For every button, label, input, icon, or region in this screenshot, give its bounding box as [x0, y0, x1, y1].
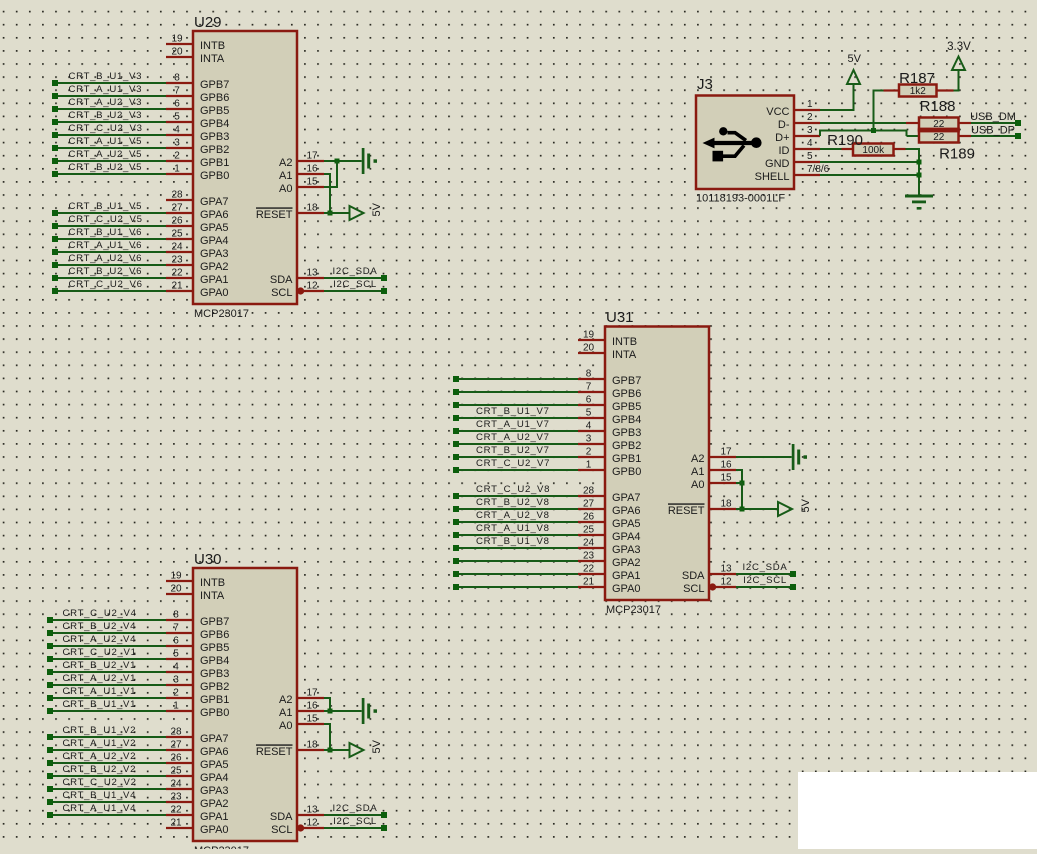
svg-text:20: 20: [170, 584, 182, 595]
wire net GPA0 to U31 pin 21: [453, 584, 578, 590]
svg-text:24: 24: [170, 779, 182, 790]
pin 15 (A0) of U29: [279, 177, 324, 195]
pin 27 (GPA6) of U29: [166, 203, 229, 221]
svg-text:10118193-0001LF: 10118193-0001LF: [696, 193, 785, 205]
svg-text:GPB0: GPB0: [612, 466, 641, 478]
junction on U30 A1 wire: [328, 709, 333, 714]
svg-text:GPA2: GPA2: [200, 798, 229, 810]
wire net CRT_A_U2_V5 to U29 pin 2: [52, 149, 166, 164]
pin 24 (GPA3) of U31: [578, 538, 641, 556]
wire U29 A1 down to A0 row: [324, 173, 330, 187]
svg-text:CRT_A_U1_V3: CRT_A_U1_V3: [69, 84, 143, 95]
svg-text:4: 4: [173, 662, 179, 673]
wire net CRT_A_U1_V2 to U30 pin 27: [47, 738, 166, 753]
svg-text:1: 1: [174, 164, 180, 175]
svg-text:CRT_C_U2_V4: CRT_C_U2_V4: [63, 608, 137, 619]
svg-text:GPA3: GPA3: [200, 248, 229, 260]
pin 27 (GPA6) of U31: [578, 499, 641, 517]
svg-text:19: 19: [171, 34, 183, 45]
svg-text:GPB2: GPB2: [200, 144, 229, 156]
wire net CRT_C_U2_V3 to U29 pin 4: [52, 123, 166, 138]
svg-text:CRT_A_U2_V3: CRT_A_U2_V3: [69, 97, 143, 108]
svg-text:15: 15: [306, 177, 318, 188]
svg-text:U31: U31: [606, 309, 634, 326]
svg-text:2: 2: [586, 447, 592, 458]
junction SHELL on ground bus: [917, 173, 922, 178]
pin 27 (GPA6) of U30: [166, 740, 229, 758]
svg-text:CRT_B_U1_V2: CRT_B_U1_V2: [63, 725, 137, 736]
svg-text:2: 2: [173, 688, 179, 699]
resistor R190 (100k): [827, 132, 893, 156]
pin 18 (RESET) of U29: [256, 203, 324, 221]
svg-text:A1: A1: [279, 707, 292, 719]
svg-text:SDA: SDA: [682, 570, 705, 582]
pin 6 (GPB5) of U30: [166, 636, 229, 654]
blank white region (bottom-right): [798, 772, 1037, 849]
svg-text:GPB6: GPB6: [200, 629, 229, 641]
USB trident icon inside J3: [703, 127, 762, 161]
svg-text:GPA4: GPA4: [612, 531, 641, 543]
resistor R188 (22): [919, 98, 959, 130]
wire net GPB7 to U31 pin 8: [453, 376, 578, 382]
pin 13 (SDA) of U31: [682, 564, 736, 582]
svg-text:20: 20: [171, 47, 183, 58]
svg-text:CRT_A_U1_V6: CRT_A_U1_V6: [69, 240, 143, 251]
wire U31 A0 horizontal: [736, 482, 742, 484]
pin 8 (GPB7) of U31: [578, 369, 641, 387]
svg-text:17: 17: [720, 447, 732, 458]
svg-text:2: 2: [174, 151, 180, 162]
svg-text:SCL: SCL: [271, 287, 292, 299]
svg-text:17: 17: [306, 151, 318, 162]
svg-text:CRT_A_U1_V5: CRT_A_U1_V5: [69, 136, 143, 147]
pin 28 (GPA7) of U29: [166, 190, 229, 208]
pin 17 (A2) of U31: [691, 447, 736, 465]
svg-text:GPA6: GPA6: [612, 505, 641, 517]
wire net CRT_B_U2_V4 to U30 pin 7: [47, 621, 166, 636]
svg-text:GPB0: GPB0: [200, 707, 229, 719]
pin 5 (GPB4) of U30: [166, 649, 229, 667]
svg-text:GPB5: GPB5: [612, 401, 641, 413]
shared border band between R188 and R189: [918, 128, 960, 133]
wire net CRT_B_U1_V3 to U29 pin 8: [52, 71, 166, 86]
wire net GPA1 to U31 pin 22: [453, 571, 578, 577]
svg-text:GPB3: GPB3: [200, 131, 229, 143]
pin 7/8/6 (SHELL) of J3: [755, 164, 830, 183]
svg-text:1: 1: [807, 99, 813, 110]
resistor R189 (22): [919, 131, 975, 163]
svg-text:22: 22: [933, 132, 945, 143]
svg-text:5V: 5V: [371, 202, 383, 216]
wire U31 A2 to ground: [736, 456, 792, 458]
svg-text:A1: A1: [279, 170, 292, 182]
svg-text:3: 3: [807, 125, 813, 136]
value label 10118193-0001LF of J3: [696, 193, 785, 205]
svg-text:GPA4: GPA4: [200, 235, 229, 247]
wire net CRT_A_U1_V8 to U31 pin 25: [453, 523, 578, 538]
pin 13 (SDA) of U29: [270, 268, 324, 286]
svg-text:A1: A1: [691, 466, 704, 478]
svg-text:16: 16: [306, 164, 318, 175]
junction on U31 RESET wire: [740, 507, 745, 512]
pin 18 (RESET) of U30: [256, 740, 324, 758]
svg-text:6: 6: [174, 99, 180, 110]
svg-text:5V: 5V: [848, 53, 862, 65]
value label MCP23017 of U30: [194, 845, 249, 854]
junction on U30 RESET wire: [328, 748, 333, 753]
svg-text:5: 5: [173, 649, 179, 660]
pin 20 (INTA) of U31: [578, 343, 637, 361]
pin 5 (GND) of J3: [765, 151, 820, 170]
svg-text:GPB5: GPB5: [200, 105, 229, 117]
svg-text:R190: R190: [827, 132, 863, 149]
svg-text:GPA2: GPA2: [612, 557, 641, 569]
svg-text:24: 24: [583, 538, 595, 549]
svg-text:RESET: RESET: [256, 746, 293, 758]
pin 12 (SCL) of U29: [271, 281, 324, 299]
svg-text:VCC: VCC: [766, 106, 789, 118]
svg-text:CRT_A_U2_V5: CRT_A_U2_V5: [69, 149, 143, 160]
svg-text:I2C_SDA: I2C_SDA: [333, 803, 378, 814]
svg-text:GPA3: GPA3: [612, 544, 641, 556]
svg-text:INTB: INTB: [200, 40, 225, 52]
svg-text:23: 23: [170, 792, 182, 803]
svg-text:I2C_SDA: I2C_SDA: [743, 562, 788, 573]
svg-text:22: 22: [583, 564, 595, 575]
pin 18 (RESET) of U31: [668, 499, 736, 517]
pin 25 (GPA4) of U29: [166, 229, 229, 247]
svg-text:25: 25: [171, 229, 183, 240]
wire R188 right lead to USB_DM: [959, 111, 1022, 126]
svg-text:GPB3: GPB3: [612, 427, 641, 439]
svg-text:A2: A2: [691, 453, 704, 465]
pin 1 (GPB0) of U31: [578, 460, 641, 478]
svg-text:13: 13: [720, 564, 732, 575]
svg-text:12: 12: [306, 281, 318, 292]
svg-text:20: 20: [583, 343, 595, 354]
pin 26 (GPA5) of U31: [578, 512, 641, 530]
wire net CRT_C_U2_V6 to U29 pin 21: [52, 279, 166, 294]
wire U29 A0 row horizontal: [324, 186, 338, 188]
svg-text:SCL: SCL: [271, 824, 292, 836]
svg-text:SDA: SDA: [270, 811, 293, 823]
svg-text:GPB7: GPB7: [200, 616, 229, 628]
pin 3 (D+) of J3: [775, 125, 820, 144]
wire R190 right lead down to ground bus: [894, 148, 921, 195]
svg-text:CRT_A_U2_V7: CRT_A_U2_V7: [476, 432, 550, 443]
pin 17 (A2) of U30: [279, 688, 324, 706]
svg-text:CRT_A_U1_V2: CRT_A_U1_V2: [63, 738, 137, 749]
svg-text:CRT_A_U1_V1: CRT_A_U1_V1: [63, 686, 137, 697]
svg-text:19: 19: [170, 571, 182, 582]
junction on U29 A2 wire: [335, 159, 340, 164]
wire net CRT_B_U2_V8 to U31 pin 27: [453, 497, 578, 512]
svg-text:12: 12: [720, 577, 732, 588]
pin 5 (GPB4) of U31: [578, 408, 641, 426]
svg-text:GPA4: GPA4: [200, 772, 229, 784]
wire net CRT_A_U2_V4 to U30 pin 6: [47, 634, 166, 649]
svg-text:CRT_C_U2_V1: CRT_C_U2_V1: [63, 647, 137, 658]
pin 5 (GPB4) of U29: [166, 112, 229, 130]
pin 25 (GPA4) of U31: [578, 525, 641, 543]
wire R187 right lead to 3.3V: [937, 70, 960, 92]
pin 1 (VCC) of J3: [766, 99, 820, 118]
power 5V arrow at U31 RESET: [778, 498, 812, 516]
resistor R187 (1k2): [899, 70, 937, 97]
svg-text:25: 25: [583, 525, 595, 536]
svg-text:5: 5: [174, 112, 180, 123]
wire U30 RESET to 5V arrow: [324, 749, 350, 751]
wire U29 A2 to ground: [324, 160, 362, 162]
svg-text:GPA0: GPA0: [200, 824, 229, 836]
pin 8 (GPB7) of U30: [166, 610, 229, 628]
wire net CRT_A_U2_V3 to U29 pin 6: [52, 97, 166, 112]
svg-text:GPA7: GPA7: [200, 733, 229, 745]
svg-text:21: 21: [171, 281, 183, 292]
svg-text:GPA7: GPA7: [612, 492, 641, 504]
svg-text:GPB4: GPB4: [200, 118, 229, 130]
svg-text:23: 23: [171, 255, 183, 266]
pin 1 (GPB0) of U30: [166, 701, 229, 719]
pin 21 (GPA0) of U31: [578, 577, 641, 595]
wire net I2C_SDA at U29 pin 13: [324, 266, 387, 281]
wire net I2C_SCL at U29 pin 12: [324, 279, 387, 294]
wire net CRT_A_U2_V1 to U30 pin 3: [47, 673, 166, 688]
svg-text:15: 15: [306, 714, 318, 725]
svg-text:CRT_C_U2_V2: CRT_C_U2_V2: [63, 777, 137, 788]
pin 26 (GPA5) of U30: [166, 753, 229, 771]
svg-text:23: 23: [583, 551, 595, 562]
pin 4 (ID) of J3: [779, 138, 821, 157]
svg-text:4: 4: [807, 138, 813, 149]
svg-text:7: 7: [586, 382, 592, 393]
pin 2 (GPB1) of U29: [166, 151, 229, 169]
pin 12 (SCL) of U31: [683, 577, 736, 595]
svg-text:GPB1: GPB1: [200, 694, 229, 706]
svg-text:3.3V: 3.3V: [947, 41, 971, 53]
wire net CRT_C_U2_V7 to U31 pin 1: [453, 458, 578, 473]
svg-text:INTB: INTB: [612, 336, 637, 348]
pin 3 (GPB2) of U30: [166, 675, 229, 693]
svg-text:GND: GND: [765, 158, 790, 170]
svg-text:D+: D+: [775, 132, 789, 144]
svg-text:CRT_A_U1_V7: CRT_A_U1_V7: [476, 419, 550, 430]
pin 4 (GPB3) of U30: [166, 662, 229, 680]
svg-text:27: 27: [583, 499, 595, 510]
pin 6 (GPB5) of U31: [578, 395, 641, 413]
svg-text:8: 8: [173, 610, 179, 621]
pin 7 (GPB6) of U31: [578, 382, 641, 400]
svg-text:CRT_A_U2_V4: CRT_A_U2_V4: [63, 634, 137, 645]
svg-text:3: 3: [586, 434, 592, 445]
svg-text:GPA5: GPA5: [612, 518, 641, 530]
pin 4 (GPB3) of U29: [166, 125, 229, 143]
wire U30 A0 down to RESET row: [324, 723, 330, 750]
pin 3 (GPB2) of U31: [578, 434, 641, 452]
svg-text:17: 17: [306, 688, 318, 699]
svg-text:3: 3: [173, 675, 179, 686]
svg-text:GPA1: GPA1: [612, 570, 641, 582]
svg-text:CRT_B_U1_V1: CRT_B_U1_V1: [63, 699, 137, 710]
wire net CRT_A_U1_V7 to U31 pin 4: [453, 419, 578, 434]
svg-text:28: 28: [171, 190, 183, 201]
pin 16 (A1) of U31: [691, 460, 736, 478]
pin 1 (GPB0) of U29: [166, 164, 229, 182]
svg-text:CRT_C_U2_V7: CRT_C_U2_V7: [476, 458, 550, 469]
pin 21 (GPA0) of U29: [166, 281, 229, 299]
wire J3 D+ to R189: [819, 131, 919, 137]
svg-text:CRT_B_U1_V4: CRT_B_U1_V4: [63, 790, 137, 801]
pin 24 (GPA3) of U29: [166, 242, 229, 260]
pin 19 (INTB) of U30: [166, 571, 225, 589]
svg-text:GPB6: GPB6: [612, 388, 641, 400]
svg-text:21: 21: [170, 818, 182, 829]
pin 26 (GPA5) of U29: [166, 216, 229, 234]
wire net GPB6 to U31 pin 7: [453, 389, 578, 395]
wire net CRT_B_U2_V6 to U29 pin 22: [52, 266, 166, 281]
svg-text:R188: R188: [920, 98, 956, 115]
value label MCP23017 of U31: [606, 604, 661, 616]
svg-text:26: 26: [171, 216, 183, 227]
wire J3 SHELL to ground bus: [820, 174, 919, 176]
svg-text:D-: D-: [778, 119, 790, 131]
pin 17 (A2) of U29: [279, 151, 324, 169]
svg-text:CRT_B_U2_V6: CRT_B_U2_V6: [69, 266, 143, 277]
svg-text:R189: R189: [939, 146, 975, 163]
wire net CRT_C_U2_V4 to U30 pin 8: [47, 608, 166, 623]
value label MCP23017 of U29: [194, 308, 249, 320]
svg-text:GPB0: GPB0: [200, 170, 229, 182]
svg-text:GPB7: GPB7: [612, 375, 641, 387]
wire net CRT_A_U2_V2 to U30 pin 26: [47, 751, 166, 766]
svg-text:GPA0: GPA0: [200, 287, 229, 299]
pin 2 (GPB1) of U30: [166, 688, 229, 706]
svg-text:7: 7: [173, 623, 179, 634]
svg-text:8: 8: [174, 73, 180, 84]
wire net I2C_SDA at U30 pin 13: [324, 803, 387, 818]
svg-text:5: 5: [807, 151, 813, 162]
svg-text:CRT_A_U1_V8: CRT_A_U1_V8: [476, 523, 550, 534]
svg-text:13: 13: [306, 805, 318, 816]
wire net CRT_A_U2_V6 to U29 pin 23: [52, 253, 166, 268]
svg-text:INTA: INTA: [200, 53, 225, 65]
svg-text:GPA5: GPA5: [200, 759, 229, 771]
svg-text:SHELL: SHELL: [755, 171, 790, 183]
svg-text:GPB4: GPB4: [200, 655, 229, 667]
svg-text:MCP23017: MCP23017: [606, 604, 661, 616]
pin 19 (INTB) of U29: [166, 34, 225, 52]
svg-text:8: 8: [586, 369, 592, 380]
svg-text:GPA3: GPA3: [200, 785, 229, 797]
wire net CRT_B_U2_V7 to U31 pin 2: [453, 445, 578, 460]
svg-text:12: 12: [306, 818, 318, 829]
svg-text:5V: 5V: [371, 739, 383, 753]
pin 22 (GPA1) of U31: [578, 564, 641, 582]
svg-text:CRT_A_U1_V4: CRT_A_U1_V4: [63, 803, 137, 814]
svg-text:CRT_C_U2_V3: CRT_C_U2_V3: [69, 123, 143, 134]
pin 24 (GPA3) of U30: [166, 779, 229, 797]
pin 15 (A0) of U31: [691, 473, 736, 491]
wire net CRT_B_U1_V1 to U30 pin 1: [47, 699, 166, 714]
svg-text:USB_DP: USB_DP: [971, 124, 1015, 136]
svg-text:CRT_B_U2_V8: CRT_B_U2_V8: [476, 497, 550, 508]
svg-text:I2C_SCL: I2C_SCL: [743, 575, 787, 586]
svg-text:CRT_B_U2_V4: CRT_B_U2_V4: [63, 621, 137, 632]
svg-text:A2: A2: [279, 694, 292, 706]
ground symbol at U30 A1: [362, 698, 377, 724]
wire net CRT_A_U1_V5 to U29 pin 3: [52, 136, 166, 151]
pin 21 (GPA0) of U30: [166, 818, 229, 836]
svg-text:GPB7: GPB7: [200, 79, 229, 91]
pin 2 (D-) of J3: [778, 112, 820, 131]
svg-text:18: 18: [306, 740, 318, 751]
svg-text:1: 1: [586, 460, 592, 471]
wire U29 RESET to 5V arrow: [324, 212, 350, 214]
pin 7 (GPB6) of U29: [166, 86, 229, 104]
svg-text:U30: U30: [194, 551, 222, 568]
wire U30 A2 down to A1 row: [324, 697, 330, 711]
svg-text:15: 15: [720, 473, 732, 484]
svg-text:GPA6: GPA6: [200, 746, 229, 758]
svg-text:5V: 5V: [800, 498, 812, 512]
svg-text:CRT_A_U2_V1: CRT_A_U2_V1: [63, 673, 137, 684]
svg-text:USB_DM: USB_DM: [970, 111, 1016, 123]
svg-text:GPA1: GPA1: [200, 811, 229, 823]
wire net I2C_SDA at U31 pin 13: [736, 562, 796, 577]
IC U29 (MCP23017): [193, 14, 297, 304]
pin 22 (GPA1) of U29: [166, 268, 229, 286]
wire net CRT_A_U2_V7 to U31 pin 3: [453, 432, 578, 447]
pin 16 (A1) of U30: [279, 701, 324, 719]
svg-text:CRT_B_U2_V1: CRT_B_U2_V1: [63, 660, 137, 671]
svg-text:MCP23017: MCP23017: [194, 845, 249, 849]
pin 23 (GPA2) of U29: [166, 255, 229, 273]
svg-text:INTB: INTB: [200, 577, 225, 589]
svg-text:25: 25: [170, 766, 182, 777]
svg-text:I2C_SDA: I2C_SDA: [333, 266, 378, 277]
svg-text:GPA1: GPA1: [200, 274, 229, 286]
svg-text:CRT_C_U2_V6: CRT_C_U2_V6: [69, 279, 143, 290]
svg-text:18: 18: [720, 499, 732, 510]
svg-text:GPB4: GPB4: [612, 414, 641, 426]
pin 23 (GPA2) of U31: [578, 551, 641, 569]
wire net CRT_A_U1_V4 to U30 pin 22: [47, 803, 166, 818]
svg-text:CRT_A_U2_V2: CRT_A_U2_V2: [63, 751, 137, 762]
svg-text:2: 2: [807, 112, 813, 123]
wire J3 VCC to 5V: [820, 84, 855, 111]
wire net CRT_C_U2_V8 to U31 pin 28: [453, 484, 578, 499]
svg-text:SDA: SDA: [270, 274, 293, 286]
pin 28 (GPA7) of U30: [166, 727, 229, 745]
wire net CRT_B_U2_V1 to U30 pin 4: [47, 660, 166, 675]
svg-text:U29: U29: [194, 14, 222, 31]
wire U31 A1 down to A0 row: [736, 469, 742, 483]
IC U31 (MCP23017): [605, 309, 709, 600]
svg-text:21: 21: [583, 577, 595, 588]
wire J3 ID to R190 left lead: [820, 148, 853, 150]
connector J3 (USB): [696, 76, 794, 189]
wire net I2C_SCL at U31 pin 12: [736, 575, 796, 590]
svg-text:A0: A0: [279, 720, 292, 732]
pin 19 (INTB) of U31: [578, 330, 637, 348]
svg-text:J3: J3: [697, 76, 713, 93]
wire net CRT_C_U2_V2 to U30 pin 24: [47, 777, 166, 792]
svg-text:A2: A2: [279, 157, 292, 169]
wire net CRT_B_U1_V4 to U30 pin 23: [47, 790, 166, 805]
svg-text:3: 3: [174, 138, 180, 149]
svg-text:16: 16: [720, 460, 732, 471]
wire net CRT_C_U2_V1 to U30 pin 5: [47, 647, 166, 662]
